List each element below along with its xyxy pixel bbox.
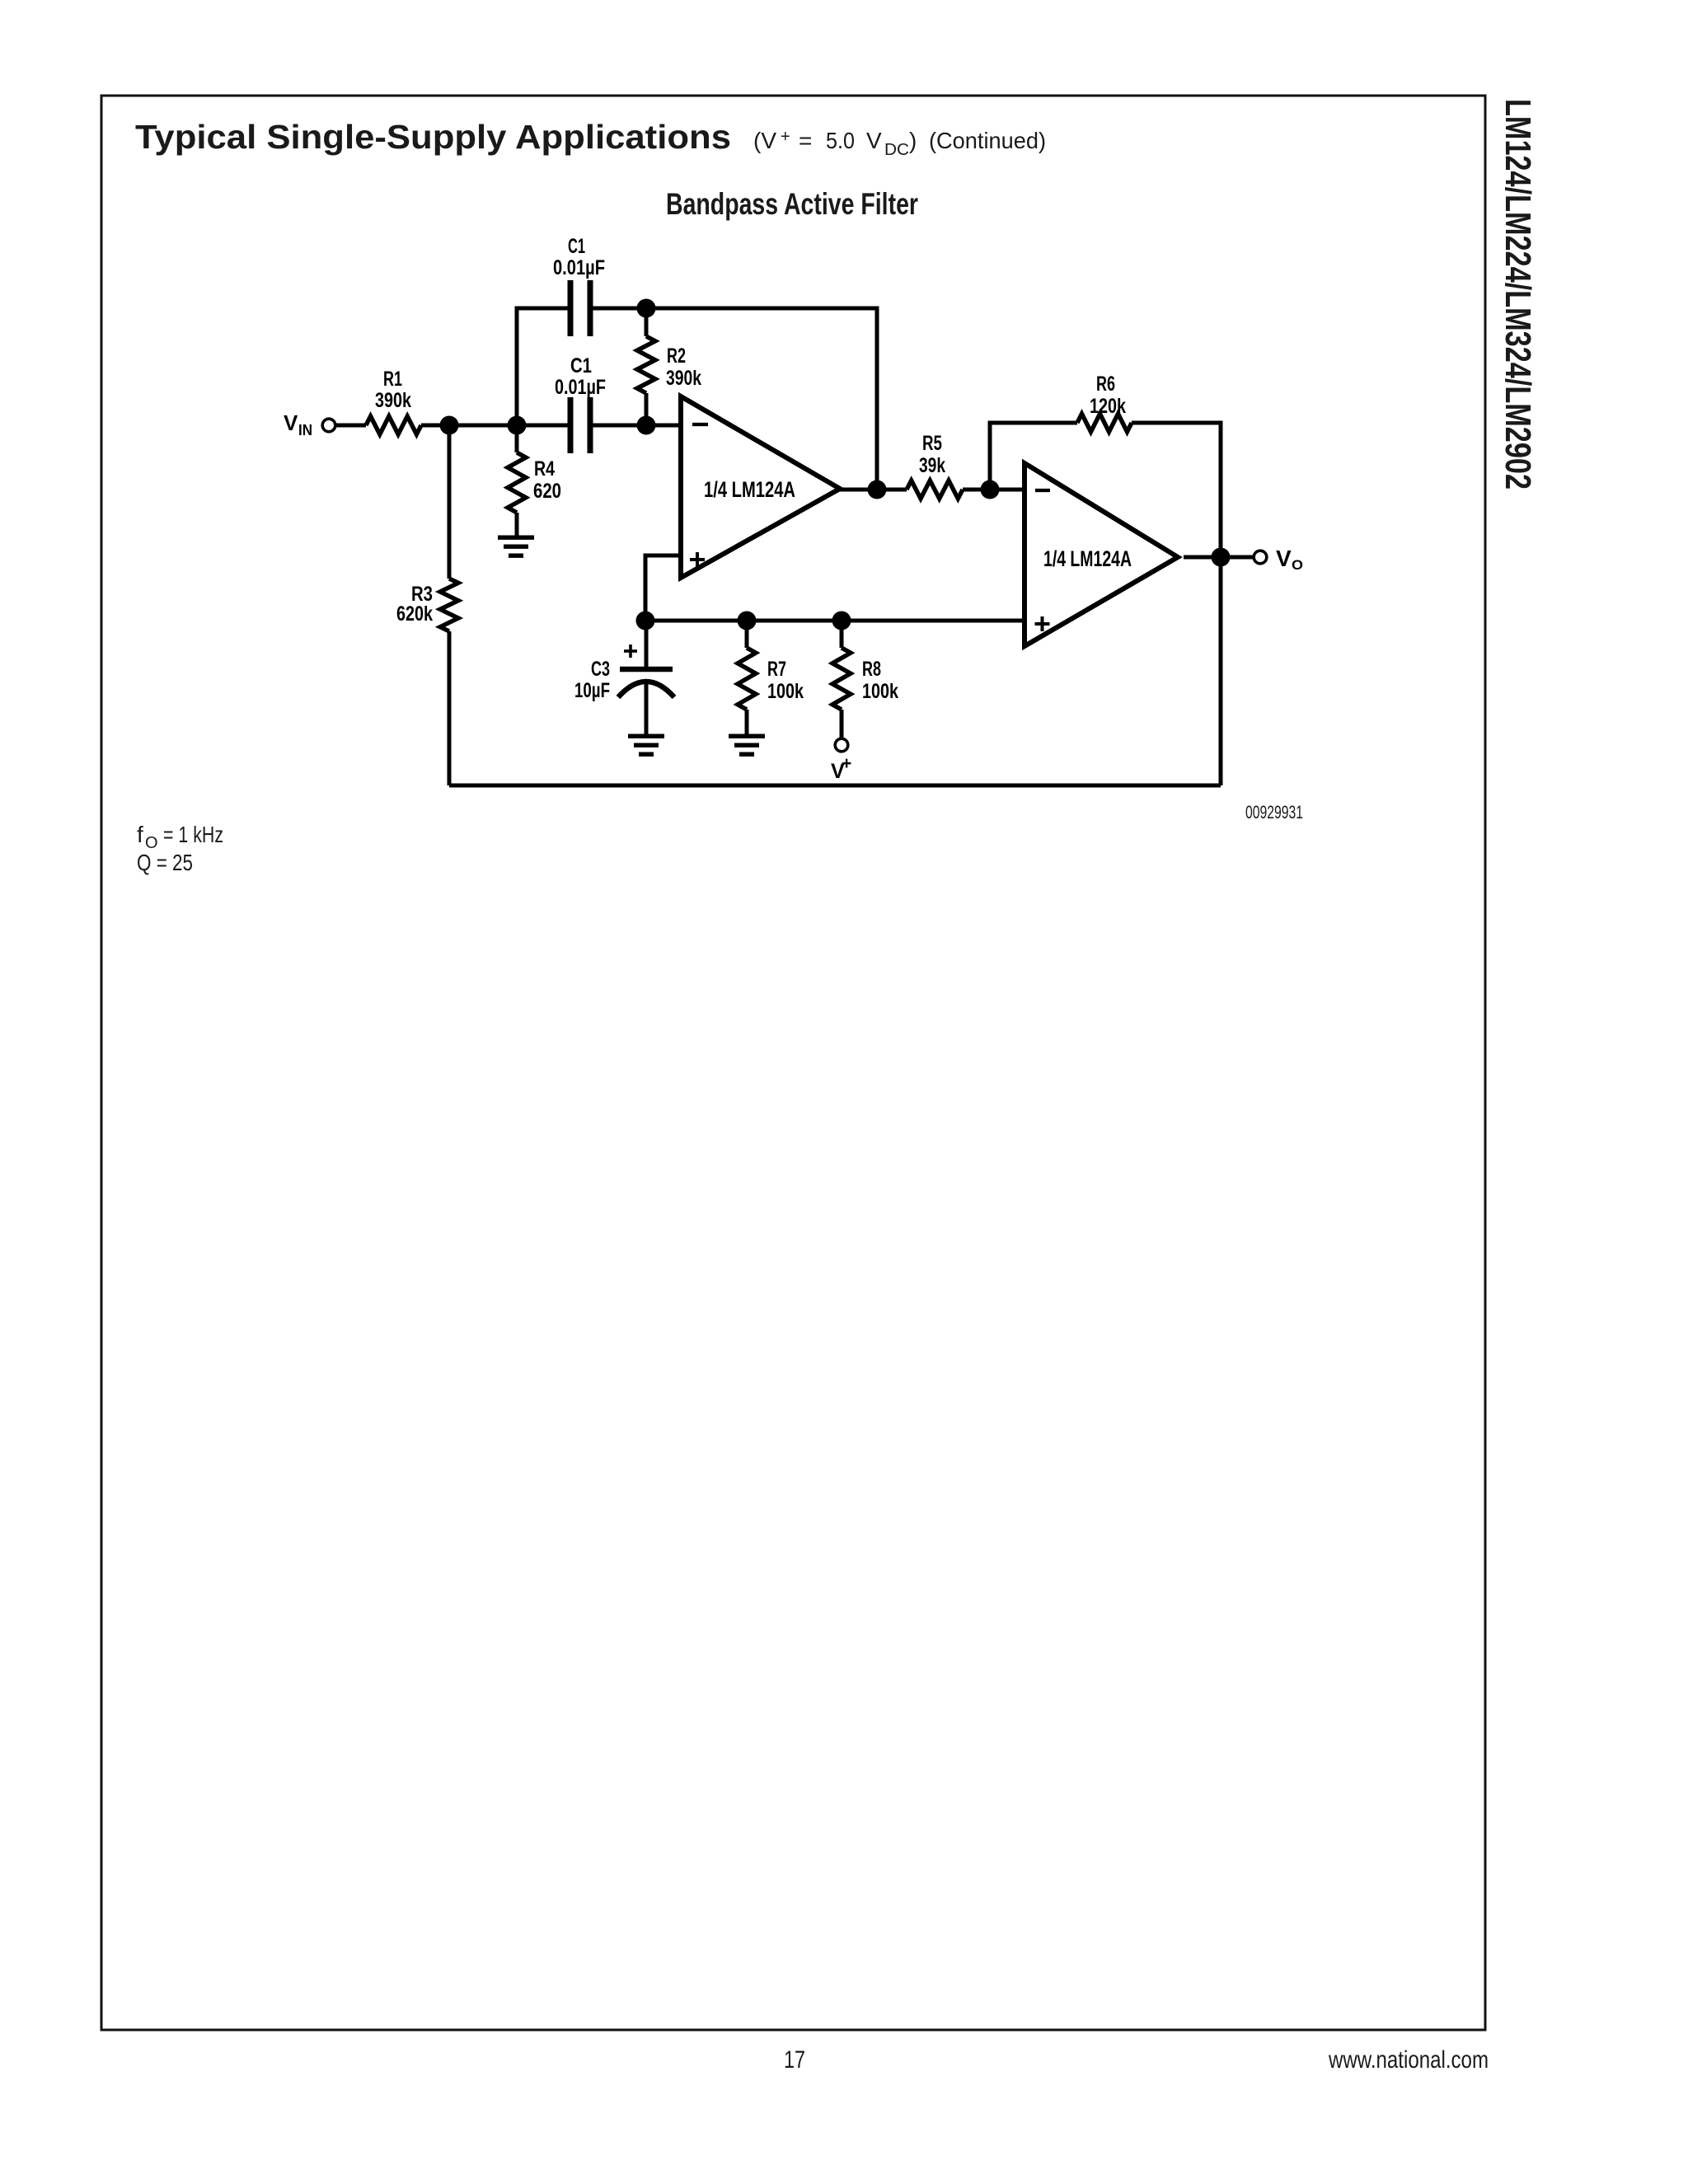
label C3 value [574,658,610,702]
wire R6 right lead down to output node [1132,423,1221,785]
wire U1 non-inverting input stub [645,555,681,621]
label C1 upper value [553,235,605,279]
junction node bus/R7 [738,612,757,630]
label R4 value [533,457,561,503]
wire node B up and over to C1 upper left plate [517,308,568,425]
svg-text:DC: DC [884,141,909,159]
resistor R8 100k [832,648,851,710]
svg-text:390k: 390k [666,367,701,390]
wire C3 top lead [645,621,649,667]
svg-text:V: V [866,128,882,153]
svg-text:Q = 25: Q = 25 [137,850,193,875]
resistor R7 100k [738,648,756,710]
junction node bus/U1+ /C3 [636,612,655,630]
page border frame [101,96,1485,2030]
svg-text:120k: 120k [1090,395,1126,418]
svg-text:= 1 kHz: = 1 kHz [163,822,223,847]
label VIN [284,410,312,438]
svg-text:R6: R6 [1096,373,1115,396]
label R7 value [767,658,804,703]
wire U1 output to R5 [838,488,907,492]
U2 non-inverting input mark [1035,616,1050,631]
wire R5 to U2 inverting input [963,488,1025,492]
wire R2 bottom lead [645,393,649,425]
svg-text:0.01µF: 0.01µF [555,376,606,399]
svg-text:+: + [781,128,790,146]
junction node U1 out/feedback [868,480,887,499]
svg-text:00929931: 00929931 [1245,802,1303,823]
svg-text:+: + [842,754,851,773]
label V+ supply [831,754,851,783]
svg-text:V: V [1276,546,1292,571]
label R8 value [862,658,898,703]
label VO [1276,546,1303,573]
svg-text:C1: C1 [568,235,585,258]
svg-text:O: O [1292,557,1303,573]
capacitor C3 10uF electrolytic [618,669,674,697]
svg-text:R8: R8 [862,658,881,681]
svg-text:620k: 620k [396,602,433,626]
bottom feedback bus wire [449,784,1221,788]
wire R6 branch up from R5 node [990,423,1077,490]
junction node C1/R2/U1-in [637,416,656,435]
U2 inverting input mark [1035,489,1050,492]
capacitor C1 upper 0.01uF [570,280,590,336]
svg-text:C1: C1 [570,354,592,377]
resistor R5 39k [907,480,963,499]
wire R1 to C1 lower left plate (through nodes) [421,424,568,428]
resistor R3 620k [440,579,458,631]
svg-text:1/4 LM124A: 1/4 LM124A [704,477,795,502]
wire U2 output to VO terminal [1184,555,1254,560]
svg-text:100k: 100k [767,680,804,703]
wire R8 top lead [840,621,844,648]
C3 polarity plus sign [624,644,637,658]
wire C1 upper right plate to feedback node, then down to U1 output [593,308,877,490]
svg-text:R7: R7 [767,658,786,681]
svg-text:620: 620 [533,480,561,503]
ground under R4 [498,536,534,558]
svg-text:(Continued): (Continued) [929,128,1046,153]
resistor R2 390k [637,336,655,393]
wire C3 bottom plate to ground [645,682,649,736]
resistor R4 620 [508,452,526,513]
svg-text:R1: R1 [383,368,402,391]
wire R8 to V+ terminal [840,710,844,739]
svg-text:Typical Single-Supply Applicat: Typical Single-Supply Applications [135,118,731,156]
svg-text:5.0: 5.0 [826,128,855,153]
wire R4 top lead [515,425,519,452]
wire R3 bottom to ground bus [448,631,452,785]
svg-text:LM124/LM224/LM324/LM2902: LM124/LM224/LM324/LM2902 [1498,99,1538,490]
note fo = 1 kHz [137,822,223,852]
U1 inverting input mark [692,423,708,426]
U1 non-inverting input mark [690,552,705,567]
terminal VO [1254,551,1267,564]
capacitor C1 lower 0.01uF [570,397,590,453]
junction node R5/R6 [981,480,1000,499]
svg-text:V: V [284,410,298,435]
label R2 value [666,344,701,390]
wire R7 to ground [745,710,749,736]
svg-text:www.national.com: www.national.com [1328,2046,1489,2074]
svg-text:1/4 LM124A: 1/4 LM124A [1043,546,1132,571]
title [135,118,1046,159]
junction node B C1/R4 [508,416,527,435]
label R3 value [396,583,433,626]
svg-text:100k: 100k [862,680,898,703]
svg-text:=: = [799,128,812,153]
wire R4 to ground [515,513,519,537]
svg-text:f: f [137,822,143,847]
svg-text:R5: R5 [922,432,942,455]
ground under R7 [729,734,765,757]
junction node R1/R3/main [440,416,459,435]
terminal VIN [322,419,335,432]
terminal V+ [835,738,848,752]
wire R3 top lead [448,425,452,579]
label C1 lower value [555,354,606,399]
svg-text:10µF: 10µF [574,679,610,702]
wire C1 lower right plate to op-amp U1 inverting input [593,424,681,428]
svg-text:Bandpass Active Filter: Bandpass Active Filter [666,187,918,221]
junction node bus/R8 [832,612,851,630]
wire R7 top lead [745,621,749,648]
svg-text:): ) [909,128,917,153]
label R6 value [1090,373,1126,418]
svg-text:39k: 39k [919,454,945,477]
wire R2 top lead [645,308,649,336]
op-amp U2 1/4 LM124A [1025,463,1178,646]
resistor R1 390k [366,416,421,434]
svg-text:R2: R2 [667,344,686,368]
svg-text:390k: 390k [375,389,411,412]
resistor R6 120k [1077,414,1132,432]
junction node U2 out [1212,548,1231,567]
svg-text:IN: IN [298,422,312,438]
label R1 value [375,368,411,412]
svg-text:(V: (V [753,128,776,153]
op-amp U1 1/4 LM124A [681,396,840,578]
wire VIN to R1 [335,424,367,428]
label R5 value [919,432,945,477]
svg-text:R4: R4 [534,457,555,480]
svg-text:0.01µF: 0.01µF [553,256,605,279]
ground under C3 [628,734,664,757]
mid bus wire to U2 non-inverting input [645,619,1025,623]
svg-text:C3: C3 [591,658,610,681]
svg-text:17: 17 [784,2046,805,2074]
junction node C1a/R2 top [637,299,656,318]
